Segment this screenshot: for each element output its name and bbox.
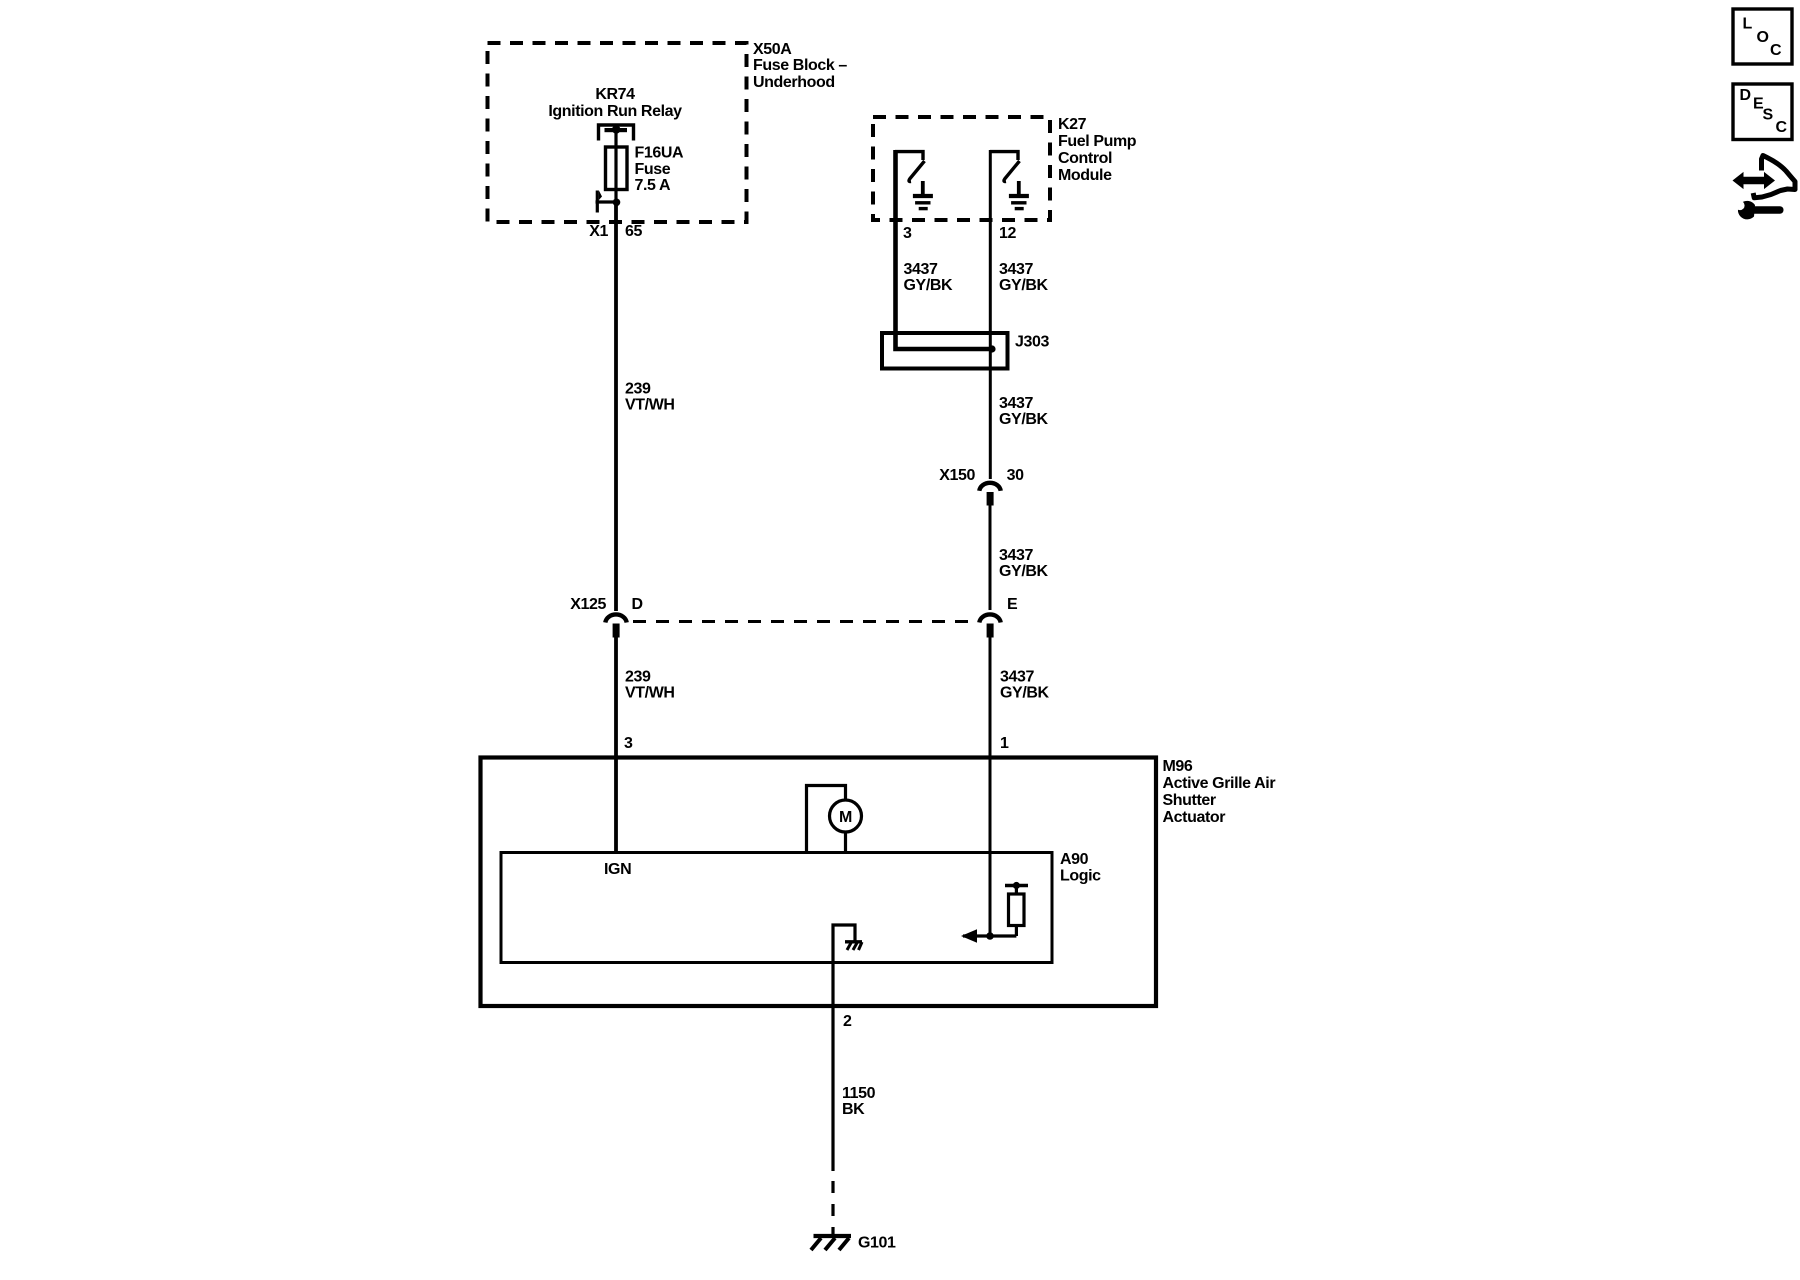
svg-text:D: D <box>632 596 643 613</box>
svg-text:X150: X150 <box>939 467 975 484</box>
svg-text:J303: J303 <box>1015 334 1049 351</box>
svg-text:K27: K27 <box>1058 116 1087 133</box>
svg-text:12: 12 <box>999 225 1016 242</box>
svg-text:O: O <box>1757 29 1769 46</box>
svg-text:Logic: Logic <box>1060 868 1101 885</box>
svg-text:1: 1 <box>1000 735 1009 752</box>
svg-text:GY/BK: GY/BK <box>1000 685 1050 702</box>
svg-text:1150: 1150 <box>842 1085 876 1102</box>
svg-text:L: L <box>1743 16 1753 33</box>
svg-text:Ignition Run Relay: Ignition Run Relay <box>548 103 682 120</box>
svg-text:65: 65 <box>625 223 642 240</box>
svg-text:X1: X1 <box>589 223 608 240</box>
svg-text:E: E <box>1007 596 1018 613</box>
svg-text:KR74: KR74 <box>595 86 635 103</box>
svg-text:GY/BK: GY/BK <box>904 277 954 294</box>
svg-text:Actuator: Actuator <box>1163 809 1226 826</box>
svg-text:Underhood: Underhood <box>753 74 835 91</box>
svg-text:VT/WH: VT/WH <box>625 685 675 702</box>
svg-text:X50A: X50A <box>753 41 792 58</box>
svg-text:3437: 3437 <box>999 395 1033 412</box>
svg-text:A90: A90 <box>1060 851 1089 868</box>
svg-text:3437: 3437 <box>1000 669 1034 686</box>
svg-text:Active Grille Air: Active Grille Air <box>1163 775 1276 792</box>
svg-text:M: M <box>839 809 852 826</box>
svg-text:F16UA: F16UA <box>635 145 685 162</box>
svg-text:IGN: IGN <box>604 861 631 878</box>
svg-text:D: D <box>1740 87 1751 104</box>
svg-text:C: C <box>1770 42 1782 59</box>
svg-text:Control: Control <box>1058 150 1112 167</box>
svg-text:3: 3 <box>903 225 912 242</box>
svg-text:GY/BK: GY/BK <box>999 563 1049 580</box>
svg-text:M96: M96 <box>1163 758 1193 775</box>
svg-text:3437: 3437 <box>999 261 1033 278</box>
svg-text:3437: 3437 <box>904 261 938 278</box>
svg-text:VT/WH: VT/WH <box>625 397 675 414</box>
svg-text:7.5 A: 7.5 A <box>635 177 671 194</box>
svg-text:Fuel Pump: Fuel Pump <box>1058 133 1137 150</box>
svg-text:GY/BK: GY/BK <box>999 411 1049 428</box>
svg-text:G101: G101 <box>858 1235 896 1252</box>
svg-text:Module: Module <box>1058 167 1112 184</box>
svg-text:S: S <box>1763 106 1774 123</box>
svg-text:Fuse Block –: Fuse Block – <box>753 57 847 74</box>
svg-text:Shutter: Shutter <box>1163 792 1216 809</box>
svg-text:X125: X125 <box>570 596 606 613</box>
svg-text:2: 2 <box>843 1013 852 1030</box>
svg-text:Fuse: Fuse <box>635 161 671 178</box>
svg-text:239: 239 <box>625 381 651 398</box>
svg-text:30: 30 <box>1007 467 1024 484</box>
svg-text:BK: BK <box>842 1101 865 1118</box>
svg-text:C: C <box>1776 119 1788 136</box>
svg-text:239: 239 <box>625 669 651 686</box>
svg-text:3: 3 <box>624 735 633 752</box>
svg-text:3437: 3437 <box>999 547 1033 564</box>
svg-text:GY/BK: GY/BK <box>999 277 1049 294</box>
